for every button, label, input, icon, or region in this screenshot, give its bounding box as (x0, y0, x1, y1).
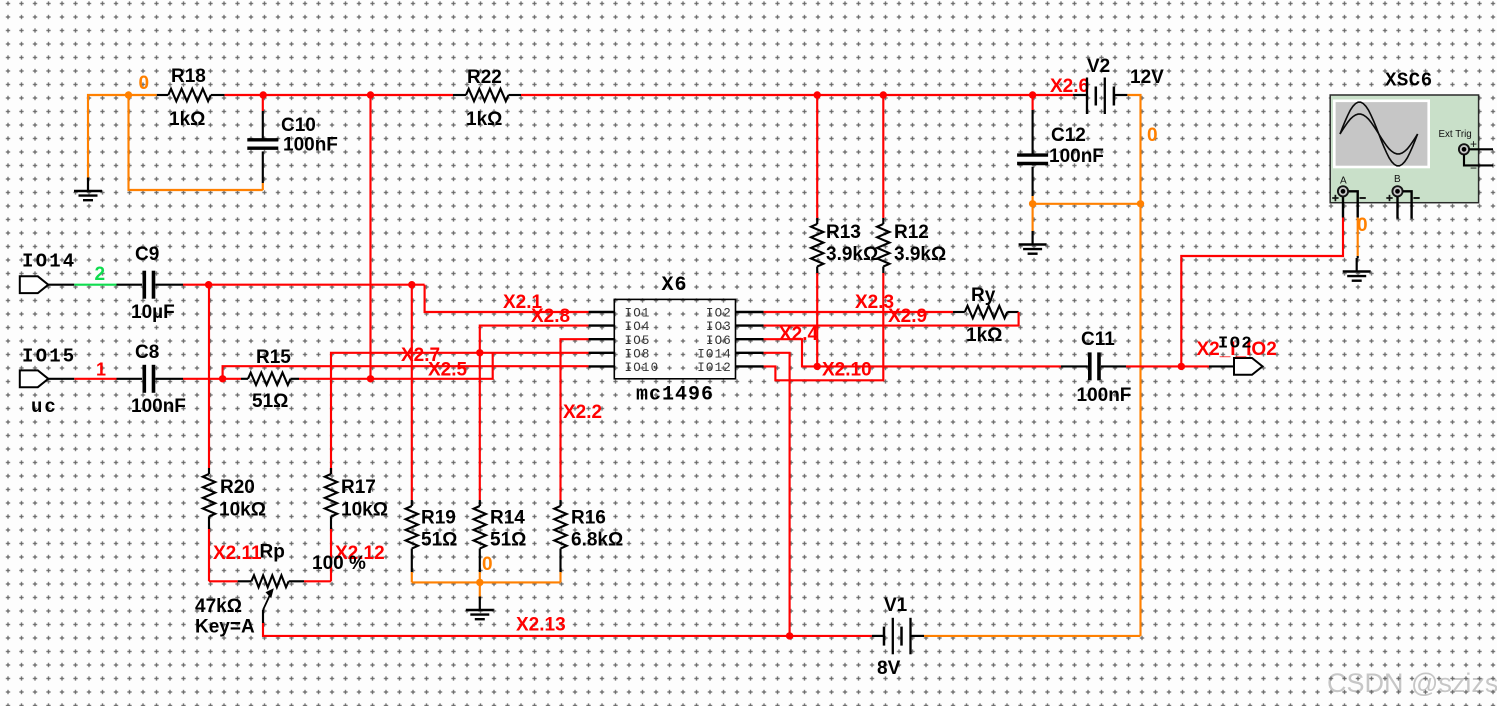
label C11 (1081, 329, 1115, 350)
svg-text:IO2: IO2 (706, 307, 732, 321)
wire C11 to IO2 connector (red) (1126, 365, 1234, 367)
svg-text:IO1: IO1 (625, 307, 651, 321)
wire C10-bottom loop (orange) (129, 95, 263, 190)
oscilloscope screen (1334, 101, 1428, 167)
wire ground to node 0 (orange) (88, 95, 157, 178)
label Rp percent 100 % (312, 553, 366, 574)
svg-text:100nF: 100nF (1077, 385, 1132, 406)
svg-text:0: 0 (139, 73, 150, 94)
svg-text:X2.6: X2.6 (1050, 76, 1089, 97)
wire X2.1 into pin IO1 (red) (425, 285, 589, 312)
op-amp U1 chip X6 mc1496 body (614, 299, 735, 378)
svg-text:8V: 8V (877, 658, 901, 679)
resistor R13 (811, 95, 823, 366)
label B (scope) (1394, 174, 1401, 185)
label R12 value 3.9k&#937; (894, 244, 946, 265)
svg-text:0: 0 (1147, 125, 1158, 146)
label Ext Trig minus (1470, 161, 1477, 175)
svg-text:X2.2: X2.2 (563, 402, 602, 423)
label R22 value 1k&#937; (466, 109, 502, 130)
svg-text:mc1496: mc1496 (636, 384, 714, 407)
label R20 (220, 477, 255, 498)
svg-text:X2.10: X2.10 (822, 360, 872, 381)
svg-text:X2.8: X2.8 (531, 306, 570, 327)
label C8 value 100nF (131, 396, 186, 417)
label A (scope) (1340, 176, 1347, 187)
net 1 label (red) (96, 360, 106, 380)
svg-text:R20: R20 (220, 477, 255, 498)
svg-text:X6: X6 (662, 274, 688, 297)
svg-text:3.9kΩ: 3.9kΩ (826, 244, 878, 265)
label R15 (256, 347, 291, 368)
svg-text:100nF: 100nF (131, 396, 186, 417)
label Rp value 47k&#937; (195, 596, 242, 617)
label Ext Trig plus (1470, 137, 1477, 151)
label mc1496 (636, 384, 714, 407)
capacitor C11 (1061, 352, 1126, 380)
terminal Ext Trig (1459, 144, 1469, 154)
label X2.10 (net) (822, 360, 872, 381)
svg-text:R18: R18 (171, 66, 206, 87)
label R12 (894, 222, 929, 243)
svg-text:X2.11: X2.11 (213, 543, 262, 564)
node 0 label (right of V2) (1147, 125, 1158, 146)
label X2.1 (net) (503, 292, 543, 313)
svg-text:R17: R17 (341, 477, 376, 498)
label V2 (1087, 56, 1110, 77)
label C10 value 100nF (283, 135, 338, 156)
label B minus (1413, 197, 1419, 199)
svg-text:100 %: 100 % (312, 553, 366, 574)
label IO15 (22, 346, 76, 368)
svg-text:C11: C11 (1081, 329, 1115, 350)
wire IO14 drop (red) (764, 353, 790, 636)
svg-text:IO8: IO8 (625, 347, 651, 361)
label A plus (1332, 195, 1338, 201)
label Ry (971, 285, 996, 306)
wire top rail R18 to R22 (red) (225, 94, 453, 96)
svg-text:R22: R22 (467, 67, 502, 88)
label V1 (884, 595, 908, 616)
wire Ry to IO3 (red) (764, 312, 1019, 326)
svg-text:1kΩ: 1kΩ (169, 109, 205, 130)
svg-text:47kΩ: 47kΩ (195, 596, 242, 617)
svg-text:R14: R14 (490, 508, 525, 529)
label R14 value 51&#937; (490, 530, 526, 551)
wire Rp wiper to X2.13 line (red) (263, 623, 872, 636)
svg-text:IO2: IO2 (1218, 335, 1253, 354)
junction top rail / R13 (814, 91, 821, 98)
svg-text:1kΩ: 1kΩ (966, 325, 1002, 346)
wire bus to ground (orange) (479, 582, 481, 596)
svg-text:IO14: IO14 (697, 347, 732, 361)
svg-text:R12: R12 (894, 222, 929, 243)
resistor R12 (877, 95, 889, 273)
label X2.11 (net) (213, 543, 262, 564)
label A minus (1359, 197, 1365, 199)
svg-text:Key=A: Key=A (195, 617, 255, 638)
label X2.7 (net) (401, 345, 440, 366)
potentiometer Rp (238, 575, 304, 623)
node 0 label (bus) (482, 554, 493, 575)
wire V1 to orange column (924, 635, 1141, 637)
label X6 (662, 274, 688, 297)
label C11 value 100nF (1077, 385, 1132, 406)
label X2.8 (net) (531, 306, 570, 327)
wire X2.5 line to pin IO10 (red) (223, 366, 589, 379)
wire scope A+ to output (red) (1181, 218, 1343, 367)
scope waveform trace 2 (1340, 114, 1418, 154)
junction X2.13 / IO14 drop (786, 632, 793, 639)
svg-text:IO15: IO15 (22, 346, 76, 368)
svg-text:C12: C12 (1051, 125, 1086, 146)
label X2.13 (net) (516, 615, 566, 636)
svg-text:12V: 12V (1130, 67, 1164, 88)
label R14 (490, 508, 525, 529)
label R22 (467, 67, 502, 88)
junction X2.7 line / R14 column (476, 349, 483, 356)
connector IO14 (20, 276, 49, 293)
label X2.12 (net) (335, 543, 385, 564)
resistor R16 (554, 500, 566, 582)
connector IO2 (output) (1234, 358, 1263, 375)
svg-text:1: 1 (96, 360, 106, 380)
wire vertical feed x370 (red) (369, 95, 371, 379)
label Ext Trig (1439, 129, 1472, 140)
battery V1 (872, 618, 924, 655)
svg-text:R19: R19 (421, 508, 456, 529)
label X2.2 (net) (563, 402, 602, 423)
wire IO2 to Ry (red) (764, 311, 953, 313)
svg-text:10kΩ: 10kΩ (219, 500, 266, 521)
svg-text:X2.5: X2.5 (428, 360, 468, 381)
wire scope A- to ground (1349, 191, 1358, 258)
chip pin labels (625, 307, 733, 375)
wire C12 bottom to orange column (1033, 203, 1141, 205)
label R16 value 6.8k&#937; (571, 530, 623, 551)
resistor R19 (406, 285, 418, 583)
svg-text:X2.9: X2.9 (888, 306, 927, 327)
junction C12-bottom (orange) (1029, 200, 1036, 207)
svg-text:IO12: IO12 (697, 361, 732, 375)
junction C9 line / R20 (205, 281, 212, 288)
svg-text:0: 0 (1357, 215, 1368, 236)
svg-text:IO6: IO6 (706, 334, 732, 348)
node 0 label (top-left) (139, 73, 150, 94)
wire Ext Trig leads (1464, 149, 1493, 165)
svg-text:C10: C10 (281, 115, 316, 136)
junction top rail / vertical feed (367, 91, 374, 98)
svg-text:Ry: Ry (971, 285, 996, 306)
label C10 (281, 115, 316, 136)
svg-text:XSC6: XSC6 (1385, 70, 1433, 92)
svg-text:100nF: 100nF (283, 135, 338, 156)
ground (under C12) (1019, 231, 1047, 254)
resistor R22 (453, 89, 521, 101)
svg-text:51Ω: 51Ω (252, 391, 288, 412)
svg-text:V2: V2 (1087, 56, 1110, 77)
junction C8 line / X2.5 branch (219, 375, 226, 382)
svg-text:2: 2 (95, 264, 106, 285)
resistor R15 (241, 373, 299, 385)
label IO2 (black) (1218, 335, 1253, 354)
junction top rail / R12 (880, 91, 887, 98)
wire scope A+ stub (black) (1342, 197, 1344, 218)
svg-text:IO10: IO10 (625, 361, 660, 375)
chip pin stubs (589, 312, 764, 366)
label R18 value 1k&#937; (169, 109, 205, 130)
svg-text:IO3: IO3 (706, 320, 732, 334)
junction C9 line / R19 (408, 281, 415, 288)
label Ry value 1k&#937; (966, 325, 1002, 346)
label R17 (341, 477, 376, 498)
svg-text:Rp: Rp (260, 542, 285, 563)
capacitor C10 (247, 95, 278, 190)
svg-text:−: − (1470, 161, 1477, 175)
resistor Ry (953, 306, 1019, 318)
wire X2.7 line to pin IO8 (red) (331, 353, 589, 474)
label X2.9 (net) (888, 306, 927, 327)
label R16 (571, 508, 606, 529)
wire top rail R22 to V2 (red) (521, 94, 1074, 96)
wire R17 to Rp (red) (304, 580, 331, 582)
label C9 value 10&#181;F (131, 302, 175, 323)
wire IO5 to R16 column (red) (561, 339, 589, 500)
wire V2 to node 0 right (orange) (1127, 95, 1140, 636)
svg-text:10kΩ: 10kΩ (341, 500, 388, 521)
svg-text:V1: V1 (884, 595, 908, 616)
junction node 0 (orange) (125, 91, 132, 98)
oscilloscope XSC6 body (1330, 95, 1478, 203)
svg-text:100nF: 100nF (1049, 146, 1104, 167)
ground (under bus) (466, 597, 494, 620)
svg-text:1kΩ: 1kΩ (466, 109, 502, 130)
svg-text:X2.13: X2.13 (516, 615, 566, 636)
connector IO15 (20, 370, 49, 387)
resistor R17 (325, 468, 337, 581)
label R13 value 3.9k&#937; (826, 244, 878, 265)
junction top rail / V2 / C12 (1029, 91, 1036, 98)
label C12 value 100nF (1049, 146, 1104, 167)
label C9 (135, 244, 159, 265)
svg-text:C9: C9 (135, 244, 159, 265)
svg-text:C8: C8 (135, 342, 159, 363)
label X2.6 (net) (1050, 76, 1089, 97)
net 2 label (green) (95, 264, 106, 285)
ground (scope) (1343, 258, 1371, 281)
junction orange bus (476, 579, 483, 586)
label R17 value 10k&#937; (341, 500, 388, 521)
wire R20 to Rp (red) (209, 580, 238, 582)
wire IO4 to R14 column (red) (480, 326, 589, 500)
wire IO6 to output line (red) (764, 339, 1061, 366)
svg-text:51Ω: 51Ω (490, 530, 526, 551)
wire IO15 to C8 (black+red) (48, 378, 142, 380)
label B plus (1386, 195, 1392, 201)
svg-text:uc: uc (31, 396, 58, 418)
label X2.3 (net) (855, 292, 894, 313)
terminal B (1392, 186, 1402, 196)
label R15 value 51&#937; (252, 391, 288, 412)
svg-text:0: 0 (482, 554, 493, 575)
svg-text:B: B (1394, 174, 1401, 185)
ground (top-left) (74, 178, 102, 201)
resistor R18 (157, 89, 225, 101)
svg-text:R16: R16 (571, 508, 606, 529)
label X2.4 (net) (779, 324, 819, 345)
junction output line / scope feed (1178, 363, 1185, 370)
label IO14 (22, 251, 76, 273)
svg-text:IO5: IO5 (625, 334, 651, 348)
svg-text:3.9kΩ: 3.9kΩ (894, 244, 946, 265)
node 0 label (scope) (1357, 215, 1368, 236)
junction R15 line / vertical feed (367, 375, 374, 382)
capacitor C8 (144, 365, 153, 393)
junction C10/top-rail (260, 91, 267, 98)
label R19 (421, 508, 456, 529)
svg-text:IO14: IO14 (22, 251, 76, 273)
label X2.5 (net) (428, 360, 468, 381)
svg-text:IO4: IO4 (625, 320, 651, 334)
wire C12 to ground (orange) (1032, 204, 1034, 231)
wire C9 to chip feed (red) (155, 284, 424, 286)
label R20 value 10k&#937; (219, 500, 266, 521)
junction orange column (1137, 200, 1144, 207)
wire B stubs (1398, 191, 1412, 219)
svg-text:X2.4: X2.4 (779, 324, 819, 345)
capacitor C12 (1017, 95, 1048, 204)
wire R15 to IO8 riser (red) (299, 353, 493, 379)
svg-text:R13: R13 (826, 222, 861, 243)
svg-text:A: A (1340, 176, 1347, 187)
wire IO14 to C9 (black+green) (48, 284, 142, 286)
resistor R20 (203, 285, 215, 582)
svg-text:51Ω: 51Ω (421, 530, 457, 551)
label XSC6 (1385, 70, 1433, 92)
junction R13 / output line (814, 363, 821, 370)
svg-text:6.8kΩ: 6.8kΩ (571, 530, 623, 551)
wire C8 to R15 (red) (155, 378, 241, 380)
battery V2 (1073, 78, 1127, 115)
scope waveform trace 1 (1340, 102, 1418, 166)
label R13 (826, 222, 861, 243)
label V1 value 8V (877, 658, 901, 679)
label Rp (260, 542, 285, 563)
label uc (31, 396, 58, 418)
svg-text:R15: R15 (256, 347, 291, 368)
terminal A (1338, 186, 1348, 196)
wire R12 bottom to IO12 pin (red) (764, 273, 884, 380)
label V2 value 12V (1130, 67, 1164, 88)
svg-text:Ext Trig: Ext Trig (1439, 129, 1472, 140)
label R18 (171, 66, 206, 87)
label Rp Key=A (195, 617, 255, 638)
svg-text:10µF: 10µF (131, 302, 175, 323)
label R19 value 51&#937; (421, 530, 457, 551)
watermark CSDN @szizs (1327, 668, 1497, 698)
label X2_I_IO2 (net, red) (1197, 339, 1277, 360)
label C12 (1051, 125, 1086, 146)
label C8 (135, 342, 159, 363)
wire orange bus under R19/R14/R16 (412, 581, 561, 583)
resistor R14 (474, 500, 486, 582)
capacitor C9 (144, 271, 153, 299)
